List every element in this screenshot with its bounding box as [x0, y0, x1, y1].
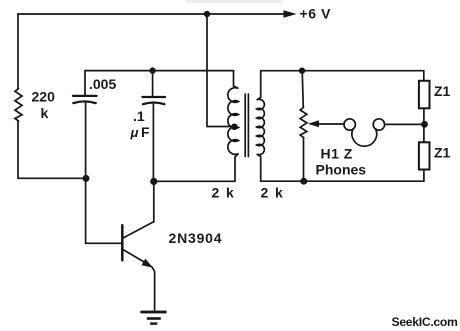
svg-text:Z1: Z1	[434, 83, 451, 99]
wire phones to right rail	[385, 123, 422, 125]
svg-text:SeekIC.com: SeekIC.com	[392, 315, 459, 329]
wire +6V drop to tap	[207, 14, 232, 127]
wire secondary bottom line	[261, 180, 424, 182]
svg-text:.005: .005	[89, 76, 116, 92]
svg-text:H1 Z: H1 Z	[321, 145, 353, 161]
potentiometer H1 drop	[302, 71, 303, 108]
faint scan smudge top	[186, 0, 282, 3]
wire left rail top	[17, 14, 19, 89]
node dot E primary tap	[231, 124, 238, 131]
transformer T1 secondary winding	[257, 71, 265, 182]
svg-text:μ: μ	[130, 125, 139, 140]
svg-text:Phones: Phones	[316, 161, 367, 177]
svg-text:F: F	[141, 124, 150, 140]
transformer T1 primary winding	[228, 71, 239, 157]
wire left rail bottom	[18, 121, 86, 178]
ground bar 1	[140, 311, 166, 314]
wire right rail segments	[423, 71, 425, 182]
svg-text:Z1: Z1	[434, 145, 451, 161]
potentiometer H1 bottom lead	[303, 138, 305, 182]
wire cap top rail	[85, 71, 234, 96]
ground bar 2	[147, 317, 161, 320]
svg-text:k: k	[41, 105, 49, 121]
svg-text:2 k: 2 k	[261, 185, 285, 201]
wire collector node drop	[152, 104, 154, 181]
resistor Z1 top box	[419, 81, 430, 109]
resistor R1 220k zigzag	[15, 89, 22, 121]
node dot D collector	[150, 178, 157, 185]
transistor Q1 collector	[124, 181, 154, 238]
capacitor C2 .1 lead top	[152, 71, 154, 97]
svg-text:2N3904: 2N3904	[169, 230, 223, 246]
headphone band arc	[352, 129, 377, 146]
headphone right earpiece	[373, 119, 384, 130]
node dot B base	[83, 175, 90, 182]
transistor Q1 base bar	[121, 225, 124, 260]
svg-text:+6 V: +6 V	[300, 6, 332, 22]
ground bar 3	[150, 322, 157, 324]
node dot F secondary bottom	[300, 178, 307, 185]
transformer T1 core	[245, 94, 248, 157]
wire base node drop	[86, 103, 122, 244]
capacitor C1 .005 plates	[73, 95, 97, 97]
capacitor C2 .1 plates	[142, 96, 165, 98]
transistor Q1 emitter	[124, 250, 155, 311]
wire collector to primary bottom	[154, 157, 235, 181]
arrowhead +6V	[284, 10, 297, 17]
svg-text:220: 220	[32, 89, 56, 105]
wire top +6V rail	[18, 13, 285, 15]
arrowhead emitter	[141, 259, 152, 268]
potentiometer H1 zigzag	[300, 108, 307, 138]
wire wiper arrow line	[314, 123, 344, 125]
node dot A top rail	[204, 11, 210, 17]
resistor Z1 bottom box	[419, 142, 430, 169]
node dot C cap rail	[149, 67, 155, 73]
arrowhead wiper	[308, 120, 319, 127]
svg-text:.1: .1	[133, 108, 145, 124]
headphone left earpiece	[344, 119, 355, 130]
svg-text:2 k: 2 k	[212, 185, 236, 201]
node dot H between Z1	[421, 121, 428, 128]
node dot G secondary top	[299, 68, 305, 74]
wire secondary top line	[261, 70, 424, 72]
